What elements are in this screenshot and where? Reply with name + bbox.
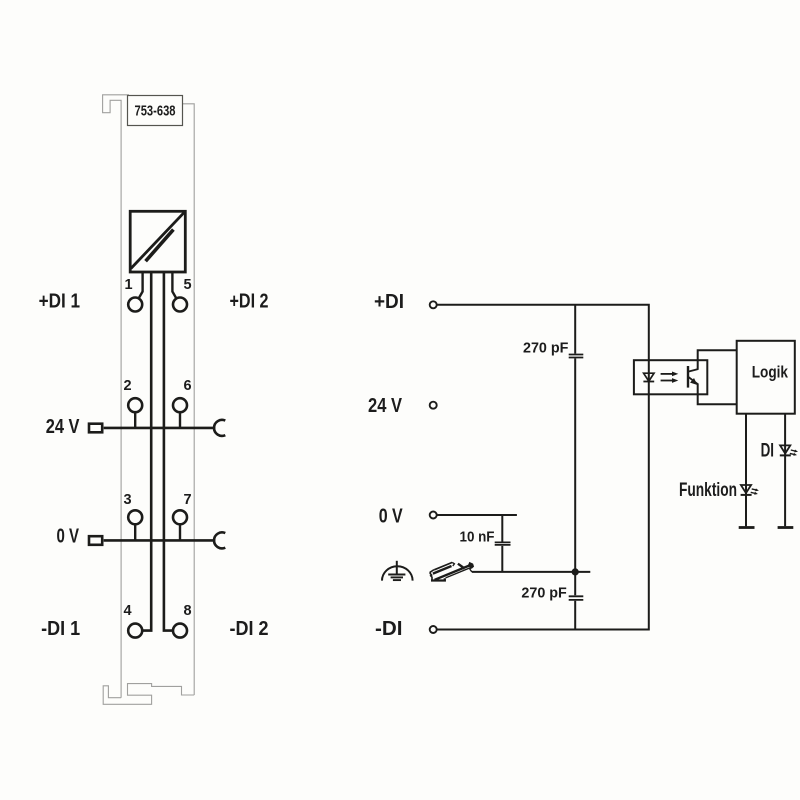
- stem terminal 3: [134, 524, 136, 540]
- terminal 4: [128, 624, 142, 638]
- terminal 7: [173, 510, 187, 524]
- svg-text:Funktion: Funktion: [679, 480, 737, 501]
- capacitor 270pF bottom plates: [569, 596, 584, 600]
- terminal 24V: [430, 402, 437, 409]
- junction node: [572, 568, 579, 575]
- opto LED D1: [644, 373, 654, 381]
- LED DI: [780, 445, 790, 453]
- coupler to logic wires: [698, 350, 737, 404]
- terminal 0V: [430, 512, 437, 519]
- opto phototransistor Q1: [688, 366, 698, 388]
- svg-text:2: 2: [124, 378, 132, 394]
- svg-text:+DI: +DI: [374, 291, 404, 313]
- svg-text:6: 6: [184, 378, 192, 394]
- pin to terminal 1: [139, 272, 143, 299]
- 24V clamp arc: [214, 420, 225, 436]
- svg-text:5: 5: [184, 277, 192, 293]
- 0V feed line: [104, 539, 216, 542]
- filter block U1: [130, 211, 185, 272]
- svg-text:3: 3: [124, 492, 132, 508]
- terminal 2: [128, 398, 142, 412]
- 24V feed line: [104, 427, 216, 430]
- svg-text:1: 1: [125, 277, 133, 293]
- terminal 1: [128, 298, 142, 312]
- DIN rail symbol: [430, 562, 473, 580]
- stem terminal 2: [134, 412, 136, 428]
- module foot: [103, 684, 194, 705]
- svg-text:Logik: Logik: [752, 362, 789, 381]
- wire 0V: [437, 514, 517, 516]
- 0V clamp arc: [214, 532, 225, 548]
- DI output wire: [784, 414, 786, 527]
- DI bus bar: [778, 526, 794, 529]
- svg-text:+DI 1: +DI 1: [39, 291, 80, 313]
- bus wire right: [164, 272, 173, 631]
- bus wire left: [143, 272, 152, 631]
- 10nF branch wire: [501, 515, 503, 572]
- ground bus line: [472, 571, 590, 573]
- label box 753-638: [128, 96, 183, 126]
- svg-text:24 V: 24 V: [368, 395, 403, 417]
- stem terminal 7: [179, 524, 181, 540]
- svg-text:-DI 2: -DI 2: [230, 618, 269, 640]
- pin to terminal 5: [172, 272, 176, 299]
- terminal +DI: [430, 301, 437, 308]
- svg-text:753-638: 753-638: [135, 103, 176, 120]
- svg-text:DI: DI: [761, 441, 774, 462]
- svg-text:0 V: 0 V: [57, 526, 80, 548]
- terminal 8: [173, 624, 187, 638]
- earth ground symbol: [382, 561, 413, 581]
- LED Funktion: [741, 485, 751, 493]
- svg-text:7: 7: [184, 492, 192, 508]
- svg-text:4: 4: [124, 603, 132, 619]
- svg-text:-DI: -DI: [375, 618, 403, 640]
- 24V marker square: [89, 424, 102, 433]
- stem terminal 6: [179, 412, 181, 428]
- svg-text:-DI 1: -DI 1: [41, 618, 80, 640]
- svg-text:8: 8: [184, 603, 192, 619]
- terminal 5: [173, 298, 187, 312]
- 0V marker square: [89, 536, 102, 545]
- terminal 3: [128, 510, 142, 524]
- module outline: [103, 95, 195, 698]
- svg-text:0 V: 0 V: [379, 506, 404, 528]
- capacitor 270pF top plates: [569, 355, 584, 358]
- svg-text:24 V: 24 V: [46, 416, 80, 438]
- terminal -DI: [430, 626, 437, 633]
- svg-text:270 pF: 270 pF: [521, 584, 566, 601]
- optocoupler box: [634, 360, 707, 394]
- Funktion output wire: [745, 414, 747, 527]
- opto light arrows: [661, 372, 679, 383]
- 270pF column wire: [574, 305, 576, 630]
- svg-text:+DI 2: +DI 2: [230, 291, 269, 313]
- Funktion bus bar: [739, 526, 755, 529]
- Logik box: [737, 341, 795, 414]
- terminal 6: [173, 398, 187, 412]
- svg-text:270 pF: 270 pF: [523, 340, 568, 357]
- svg-text:10 nF: 10 nF: [460, 528, 495, 545]
- capacitor 10nF plates: [495, 542, 511, 545]
- wire +DI to right rail and down to -DI: [437, 305, 649, 630]
